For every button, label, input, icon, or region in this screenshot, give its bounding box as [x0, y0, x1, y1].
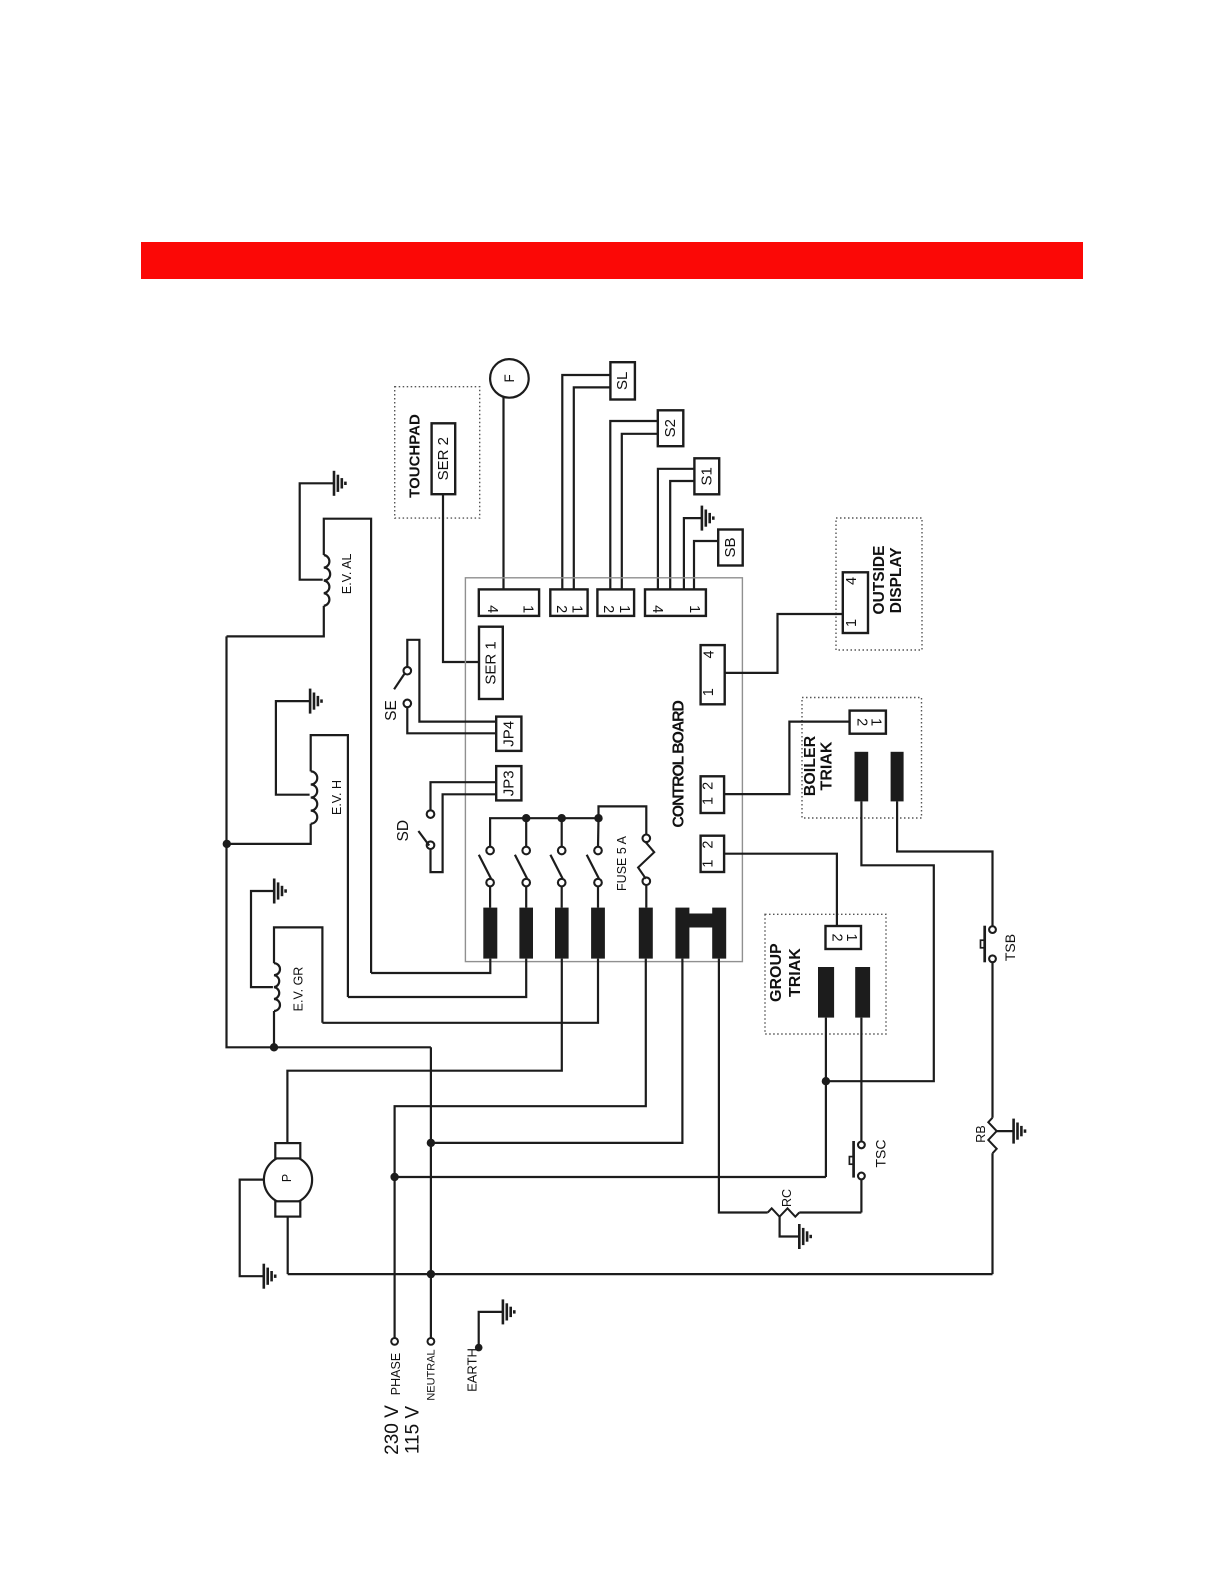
wire SB pin [694, 541, 718, 589]
label OUTSIDE [871, 546, 888, 615]
boiler conn pin 1 [868, 718, 884, 726]
H-block crossbar [689, 914, 713, 928]
label CONTROL BOARD [670, 701, 687, 828]
pin bar 1 (E.V. AL) [483, 908, 497, 959]
ground at EARTH [503, 1299, 514, 1324]
bottom bus wire [288, 1273, 993, 1275]
ground at E.V. GR [274, 879, 285, 904]
label TOUCHPAD [407, 414, 424, 498]
wire boiler terminal2 to TSB [897, 801, 992, 926]
connector 4-1 (S1/SB header) [645, 589, 706, 616]
svg-text:CONTROL BOARD: CONTROL BOARD [670, 701, 687, 828]
ground at RC [799, 1224, 810, 1249]
svg-text:2: 2 [853, 718, 869, 726]
boiler triak terminal 1 [855, 752, 869, 802]
left bus wire [227, 636, 431, 1047]
connector SER 2 [432, 423, 456, 494]
relay K3 blade [550, 855, 562, 879]
label 230 V [382, 1405, 403, 1455]
junction bus-relay3 [558, 814, 566, 822]
svg-text:TSB: TSB [1002, 934, 1018, 961]
relay K1 wire to pin bar [489, 886, 491, 908]
label PHASE [389, 1353, 403, 1395]
fuse element [638, 842, 654, 879]
pump P body [264, 1156, 312, 1204]
label JP3 [500, 770, 517, 796]
svg-text:NEUTRAL: NEUTRAL [426, 1349, 438, 1400]
pin 2 of group conn [701, 841, 717, 849]
display connector 1-4 [843, 572, 868, 633]
coil E.V. AL [324, 555, 330, 606]
wire group terminal2 to TSC [860, 1018, 862, 1142]
relay K2 upper terminal [522, 847, 530, 855]
wire bus to relay2 [525, 818, 527, 847]
svg-text:2: 2 [553, 605, 569, 613]
relay K3 lower terminal [558, 879, 566, 887]
switch SE terminal 1 [404, 667, 412, 675]
pin bar 5 (fuse/phase) [639, 908, 653, 959]
label EARTH [464, 1348, 479, 1392]
svg-text:2: 2 [701, 841, 717, 849]
svg-text:FUSE 5 A: FUSE 5 A [615, 835, 629, 891]
svg-text:RB: RB [974, 1125, 988, 1142]
svg-text:S2: S2 [662, 419, 679, 437]
relay K2 lower terminal [522, 879, 530, 887]
wire pin bar7 to RC [719, 959, 768, 1213]
relay K2 blade [515, 855, 527, 879]
neutral wire [430, 1047, 432, 1338]
svg-text:115 V: 115 V [402, 1406, 423, 1455]
label DISPLAY [888, 547, 905, 613]
svg-text:1: 1 [520, 605, 536, 613]
label SER 2 [435, 437, 452, 480]
wire pin bar3 to pump [287, 959, 561, 1144]
svg-text:TRIAK: TRIAK [787, 948, 804, 997]
group conn pin 1 [843, 933, 859, 941]
fuse upper terminal [643, 835, 651, 843]
svg-text:4: 4 [484, 605, 500, 613]
svg-text:JP4: JP4 [500, 721, 517, 747]
wire connector 4-1 pin3 to ground [684, 518, 702, 589]
wire pump case to ground [240, 1180, 264, 1277]
terminal PHASE [391, 1338, 398, 1345]
resistor RB [988, 1118, 996, 1154]
label RB [974, 1125, 988, 1142]
svg-text:1: 1 [843, 933, 859, 941]
label SL [614, 372, 631, 390]
group triak terminal 1 [818, 967, 834, 1018]
switch SE terminal 2 [404, 700, 412, 708]
coil E.V. GR [274, 963, 280, 1011]
group triak terminal 2 [855, 967, 870, 1018]
switch SD terminal 2 [427, 841, 435, 849]
motor F [490, 359, 529, 398]
ground at E.V. H [310, 689, 321, 714]
wire E.V. AL coil bottom to bus [227, 606, 324, 637]
junction bus-relay2 [522, 814, 530, 822]
terminal NEUTRAL [428, 1338, 435, 1345]
svg-text:E.V. GR: E.V. GR [292, 967, 306, 1012]
group conn pin 2 [829, 933, 845, 941]
label S2 [662, 419, 679, 437]
svg-text:SD: SD [395, 820, 412, 842]
boiler triak terminal 2 [891, 752, 904, 802]
wire SL pin1 [562, 375, 610, 589]
svg-text:SL: SL [614, 372, 631, 390]
junction bus-fuse [594, 814, 602, 822]
wire board to group triak conn [724, 854, 837, 926]
boiler triak connector 1-2 [850, 711, 886, 734]
relay K1 upper terminal [486, 847, 494, 855]
label SD [395, 820, 412, 842]
wire SE terminal2 to JP4 [407, 707, 496, 734]
junction group-boiler [822, 1077, 830, 1085]
connector 1-2 (group triak) [701, 836, 725, 872]
relay common bus [490, 818, 598, 847]
label E.V. AL [340, 553, 354, 594]
push button TSC terminal 2 [858, 1173, 865, 1180]
svg-text:230 V: 230 V [382, 1405, 403, 1455]
pin 4 of S1/SB header [649, 605, 665, 613]
fuse wire to pin bar [645, 885, 647, 908]
svg-text:RC: RC [780, 1189, 794, 1207]
svg-text:2: 2 [701, 782, 717, 790]
svg-text:4: 4 [701, 650, 717, 658]
boiler conn pin 2 [853, 718, 869, 726]
wire pin bar5 to phase [395, 959, 646, 1339]
wire TSB to RB [991, 962, 993, 1117]
wire boiler terminal1 to group node [826, 801, 934, 1081]
junction neutral-bar6 [427, 1139, 435, 1147]
relay K4 upper terminal [594, 847, 602, 855]
switch SL [610, 362, 635, 399]
wire SD terminal1 to JP3 [431, 782, 497, 811]
push button TSB terminal 1 [989, 926, 996, 933]
relay K4 blade [587, 855, 599, 879]
pin bar 2 (E.V. H) [519, 908, 533, 959]
relay K4 lower terminal [594, 879, 602, 887]
junction phase-TSC line [390, 1173, 398, 1181]
relay K1 blade [479, 855, 491, 879]
wire E.V. GR ground tap [251, 891, 274, 987]
svg-text:PHASE: PHASE [389, 1353, 403, 1395]
svg-text:F: F [502, 374, 517, 382]
svg-text:OUTSIDE: OUTSIDE [871, 546, 888, 615]
pin 4 of connector 4-1 [484, 605, 500, 613]
label FUSE 5 A [615, 835, 629, 891]
label TSC [873, 1140, 889, 1168]
pin 1 of SL header [568, 605, 584, 613]
svg-text:TSC: TSC [873, 1140, 889, 1168]
resistor RC [768, 1208, 800, 1216]
switch SD terminal 1 [427, 810, 435, 818]
outside display enclosure (dashed) [836, 518, 922, 650]
wire group terminal1 down [825, 1018, 827, 1177]
pin 1 of S1/SB header [686, 605, 702, 613]
group triak enclosure (dashed) [765, 914, 886, 1034]
wire board to boiler triak conn [724, 722, 850, 795]
wire pin bar4 to E.V. GR [322, 959, 598, 1023]
pin 2 of boiler conn [701, 782, 717, 790]
svg-text:SER 2: SER 2 [435, 437, 452, 480]
wire SE terminal1 to JP4 [407, 640, 496, 722]
pin bar 4 (E.V. GR) [591, 908, 605, 959]
junction bus-EVH [223, 840, 231, 848]
switch SD blade [418, 831, 429, 846]
label 115 V [402, 1406, 423, 1455]
svg-text:1: 1 [686, 605, 702, 613]
wire EARTH to ground [479, 1312, 503, 1348]
label SER 1 [482, 641, 499, 684]
wire E.V. AL coil top [324, 519, 371, 973]
wire pin bar1 to E.V. AL [371, 959, 490, 973]
label E.V. GR [292, 967, 306, 1012]
label P [280, 1174, 294, 1182]
pin bar 3 (pump) [555, 908, 569, 959]
wire E.V. GR coil bottom [273, 1011, 275, 1047]
switch SB [718, 530, 743, 566]
wire E.V. AL ground tap [300, 483, 334, 579]
label F [502, 374, 517, 382]
wire bus to relay3 [561, 818, 563, 847]
display pin 4 [844, 577, 860, 585]
wire SD terminal2 to JP3 [431, 794, 497, 872]
wire board to outside display [725, 614, 843, 673]
wire F to connector 4-1 [502, 397, 504, 589]
control board outline [465, 578, 742, 962]
pin 1 of display conn [701, 688, 717, 696]
switch S1 [694, 458, 719, 494]
wire S1 pin1 [658, 469, 695, 590]
pin 2 of S2 header [600, 605, 616, 613]
ground at pump [264, 1264, 275, 1289]
wire S2 pin1 [610, 421, 658, 589]
switch S2 [658, 410, 684, 446]
relay K4 wire to pin bar [597, 886, 599, 908]
relay K1 lower terminal [486, 879, 494, 887]
wire E.V. H coil top [311, 735, 348, 997]
svg-text:SB: SB [722, 537, 739, 557]
wire RC tap to ground [780, 1217, 800, 1237]
wire pin bar6 to neutral [431, 959, 683, 1143]
jumper JP3 [496, 766, 521, 800]
jumper JP4 [496, 717, 521, 751]
label GROUP [768, 943, 785, 1002]
wire S1 pin2 [670, 481, 694, 589]
wire RB to bottom bus [991, 1153, 993, 1274]
wire S2 pin2 [622, 434, 658, 590]
wire E.V. H coil bottom to bus [227, 824, 311, 844]
connector 1-2 (S2 header) [597, 589, 634, 616]
long wire phase junction to group terminal1 [395, 1176, 826, 1178]
svg-text:1: 1 [844, 619, 860, 627]
pump P upper terminal [275, 1143, 300, 1158]
svg-text:E.V. AL: E.V. AL [340, 553, 354, 594]
wire SER 2 to SER 1 [443, 494, 479, 662]
bus bridge to fuse [599, 806, 647, 835]
svg-text:1: 1 [701, 797, 717, 805]
svg-text:1: 1 [568, 605, 584, 613]
pin bar 6 (H-block left, neutral) [675, 908, 689, 959]
svg-text:1: 1 [868, 718, 884, 726]
svg-text:1: 1 [701, 688, 717, 696]
svg-text:EARTH: EARTH [464, 1348, 479, 1392]
svg-text:4: 4 [844, 577, 860, 585]
svg-text:JP3: JP3 [500, 770, 517, 796]
terminal EARTH [475, 1344, 483, 1352]
pin 2 of SL header [553, 605, 569, 613]
wire bus to relay4 [597, 818, 600, 847]
switch SE blade [394, 674, 404, 689]
label SE [383, 700, 400, 721]
label E.V. H [330, 780, 344, 815]
wire E.V. H ground tap [276, 701, 310, 795]
label NEUTRAL [426, 1349, 438, 1400]
pin 4 of display conn [701, 650, 717, 658]
TSB plunger [981, 926, 985, 963]
svg-text:DISPLAY: DISPLAY [888, 547, 905, 613]
wire RB tap to ground [996, 1130, 1013, 1132]
svg-text:1: 1 [616, 605, 632, 613]
svg-text:P: P [280, 1174, 294, 1182]
pin 1 of group conn [701, 860, 717, 868]
label S1 [698, 467, 715, 485]
wire SL pin2 [574, 387, 611, 589]
svg-text:SER 1: SER 1 [482, 641, 499, 684]
connector 1-2 (SL header) [550, 589, 587, 616]
push button TSC terminal 1 [858, 1142, 865, 1149]
wire RC to TSC [799, 1211, 861, 1213]
svg-text:BOILER: BOILER [802, 735, 819, 796]
label RC [780, 1189, 794, 1207]
pump P lower terminal [275, 1201, 300, 1216]
touchpad enclosure (dashed) [395, 387, 480, 518]
svg-text:TRIAK: TRIAK [819, 741, 836, 790]
pin 1 of S2 header [616, 605, 632, 613]
svg-text:GROUP: GROUP [768, 943, 785, 1002]
junction bus-EVGR [270, 1043, 278, 1051]
coil E.V. H [311, 771, 318, 823]
label BOILER [802, 735, 819, 796]
TSC plunger [849, 1141, 853, 1178]
wire E.V. GR coil top [274, 927, 322, 1022]
fuse lower terminal [643, 877, 651, 885]
svg-text:2: 2 [600, 605, 616, 613]
ground at RB [1014, 1119, 1025, 1144]
pin 1 of connector 4-1 [520, 605, 536, 613]
relay K3 wire to pin bar [561, 886, 563, 908]
junction neutral-bottom bus [427, 1270, 435, 1278]
label TRIAK (group) [787, 948, 804, 997]
wire TSC to RC row [860, 1179, 862, 1212]
wire pin bar2 to E.V. H [348, 959, 526, 997]
connector 1-4 (outside display) [701, 645, 725, 704]
label TRIAK (boiler) [819, 741, 836, 790]
svg-text:S1: S1 [698, 467, 715, 485]
push button TSB terminal 2 [989, 955, 996, 962]
red title banner [141, 242, 1083, 279]
svg-text:1: 1 [701, 860, 717, 868]
ground near SB [702, 506, 713, 531]
label TSB [1002, 934, 1018, 961]
relay K3 upper terminal [558, 847, 566, 855]
pin 1 of boiler conn [701, 797, 717, 805]
label JP4 [500, 721, 517, 747]
label SB [722, 537, 739, 557]
connector 1-2 (boiler triak) [701, 776, 725, 813]
pin bar 7 (H-block right, RC) [712, 908, 726, 959]
display pin 1 [844, 619, 860, 627]
svg-text:E.V. H: E.V. H [330, 780, 344, 815]
group triak connector 1-2 [826, 926, 862, 949]
ground at E.V. AL [334, 471, 345, 496]
boiler triak enclosure (dashed) [802, 698, 922, 819]
svg-text:4: 4 [649, 605, 665, 613]
relay K2 wire to pin bar [525, 886, 527, 908]
wire pump to bottom bus [287, 1217, 289, 1275]
svg-text:2: 2 [829, 933, 845, 941]
svg-text:TOUCHPAD: TOUCHPAD [407, 414, 424, 498]
connector 4-1 (display/F header) [479, 589, 539, 616]
connector SER 1 [479, 627, 503, 699]
svg-text:SE: SE [383, 700, 400, 721]
